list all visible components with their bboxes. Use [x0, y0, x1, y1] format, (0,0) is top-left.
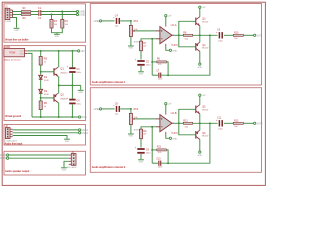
- wire Q3 emitter to output: [199, 26, 201, 36]
- junction: [71, 84, 73, 86]
- wire pot to ground: [130, 37, 132, 46]
- svg-text:BC547: BC547: [202, 109, 209, 111]
- svg-text:POW: POW: [10, 52, 16, 55]
- svg-text:Adjust 5v DC-DC: Adjust 5v DC-DC: [4, 59, 21, 62]
- op-amp U1.B V+ stub: [165, 112, 167, 114]
- wire Q4 collector down: [199, 139, 201, 151]
- pin +9V rail: [78, 50, 80, 52]
- svg-text:TL072: TL072: [171, 133, 178, 135]
- wire cap to R10: [224, 122, 233, 124]
- junction: [199, 34, 201, 36]
- transistor Q2: [54, 93, 58, 102]
- op-amp U1.A: [156, 27, 175, 44]
- pin OUT1: [254, 34, 256, 36]
- pin LINE1 out: [79, 129, 81, 131]
- pin GND rail: [79, 116, 81, 118]
- svg-text:C10: C10: [156, 157, 161, 160]
- svg-text:GND: GND: [198, 155, 203, 157]
- resistor R9: [140, 129, 143, 139]
- junction: [58, 50, 60, 52]
- wiper of RV1: [133, 30, 136, 32]
- svg-text:Audio amplification channel 1: Audio amplification channel 1: [92, 81, 126, 84]
- wire Q3 emitter to output: [199, 114, 201, 124]
- capacitor C4: [67, 97, 76, 104]
- wire pot to ground: [130, 125, 132, 134]
- junction: [151, 126, 153, 128]
- connector J3 speaker: [69, 154, 76, 166]
- wire opamp out: [174, 122, 183, 124]
- wire inverting node down: [151, 39, 153, 75]
- resistor R3: [50, 20, 53, 29]
- wire R3 R4 to ground: [52, 28, 63, 33]
- wire to output cap: [193, 34, 218, 36]
- connector J2 line input jack: [5, 128, 12, 139]
- svg-text:LINE1: LINE1: [81, 130, 88, 132]
- wire Q1 collector to +9V rail: [58, 51, 60, 68]
- wire inverting node down: [151, 127, 153, 163]
- resistor R1: [21, 11, 30, 13]
- wire Q2 emitter to mid node: [58, 85, 60, 93]
- pin +9V output stage: [199, 94, 201, 96]
- wire to Q4 base: [179, 123, 196, 135]
- svg-text:LINE1: LINE1: [79, 12, 86, 14]
- wire cap to volume pot: [120, 108, 131, 110]
- wire input to cap: [102, 108, 115, 110]
- svg-text:100u: 100u: [146, 64, 150, 66]
- junction: [58, 116, 60, 118]
- resistor R10: [233, 34, 243, 36]
- op-amp U1.A V- stub: [165, 44, 167, 46]
- pin GND opamp: [169, 137, 171, 139]
- wire mid node to C4: [71, 85, 73, 98]
- wire into pot: [130, 109, 132, 114]
- box: audio amplification channel 2: [90, 88, 261, 173]
- wire J2 to LINE2: [13, 132, 79, 134]
- svg-text:GND: GND: [172, 50, 177, 52]
- svg-text:BC557: BC557: [202, 136, 209, 138]
- junction: [151, 149, 153, 151]
- pin LINE2: [76, 13, 78, 15]
- svg-text:LINE2: LINE2: [79, 15, 86, 17]
- transistor Q4: [196, 42, 200, 51]
- junction: [40, 71, 42, 73]
- wire Q4 emitter to output: [199, 35, 201, 42]
- wire J2 to LINE1: [13, 129, 79, 131]
- junction: [209, 122, 211, 124]
- svg-text:Audio speaker output: Audio speaker output: [5, 170, 29, 173]
- wire +9V rail: [27, 50, 77, 52]
- wire - input to R7: [141, 39, 156, 41]
- wire J1 sleeve to ground: [12, 18, 16, 28]
- svg-text:10u: 10u: [115, 113, 118, 115]
- svg-text:3,5MM: 3,5MM: [5, 21, 11, 23]
- wire to output cap: [193, 122, 218, 124]
- transistor Q6: [196, 130, 200, 139]
- svg-text:RV1: RV1: [134, 20, 139, 23]
- capacitor C9: [135, 146, 145, 153]
- wire to Q2 base: [41, 97, 54, 99]
- resistor R5: [39, 57, 42, 66]
- svg-text:R11: R11: [157, 145, 162, 148]
- capacitor C1: [38, 10, 41, 13]
- svg-text:GND: GND: [129, 48, 134, 50]
- pin +9V output stage: [199, 6, 201, 8]
- power module U2: [4, 48, 27, 56]
- resistor R13: [233, 122, 243, 124]
- ground at J2: [64, 139, 70, 143]
- resistor R6: [39, 101, 42, 110]
- junction: [130, 20, 132, 22]
- potentiometer RV1: [129, 25, 132, 36]
- pin LINE1: [100, 20, 102, 22]
- wire Q4 collector down: [199, 51, 201, 63]
- pin GND output stage: [199, 63, 201, 65]
- svg-text:R10: R10: [234, 32, 239, 35]
- wire V- to pin: [166, 134, 170, 138]
- wire V- to pin: [166, 46, 170, 50]
- svg-text:+9V: +9V: [202, 95, 206, 97]
- svg-text:RV2: RV2: [134, 108, 139, 111]
- wire C5 to ground: [140, 154, 142, 159]
- capacitor C2: [38, 13, 41, 16]
- capacitor C11: [216, 119, 223, 126]
- svg-text:U1.B: U1.B: [171, 111, 177, 115]
- wire R7 to C5: [140, 139, 142, 148]
- wire R1 to C1: [31, 11, 38, 13]
- wire C3 to mid node: [71, 73, 73, 85]
- resistor R8: [183, 34, 192, 36]
- transistor Q3: [196, 17, 200, 26]
- svg-text:R13: R13: [234, 120, 239, 123]
- resistor R4: [61, 20, 64, 29]
- wire C5 to ground: [140, 66, 142, 71]
- svg-text:Virtual ground: Virtual ground: [5, 115, 22, 118]
- wire R5 to D1: [40, 65, 42, 75]
- wiper of RV2: [133, 118, 136, 120]
- svg-text:Virtual line out buffer: Virtual line out buffer: [5, 38, 29, 41]
- resistor R2: [21, 14, 30, 16]
- svg-text:100u: 100u: [218, 128, 222, 130]
- svg-text:+9V: +9V: [202, 7, 206, 9]
- resistor R11: [157, 149, 166, 151]
- wire R7 to C5: [140, 51, 142, 60]
- svg-text:GND: GND: [81, 117, 86, 119]
- capacitor C4: [113, 17, 120, 24]
- diode D2: [39, 89, 43, 93]
- wire D1 to D2: [40, 80, 42, 90]
- capacitor C7: [158, 73, 161, 78]
- pin OUT1 in: [7, 154, 9, 156]
- junction: [178, 34, 180, 36]
- junction: [167, 74, 169, 76]
- pin OUT2: [254, 122, 256, 124]
- potentiometer RV2: [129, 113, 132, 124]
- ground under C5: [138, 72, 144, 76]
- ground under pot: [128, 46, 134, 50]
- wire into pot: [130, 21, 132, 26]
- capacitor C8: [113, 105, 120, 112]
- capacitor C3: [67, 66, 76, 73]
- wire R6 down to bottom: [166, 150, 168, 163]
- svg-text:+9V: +9V: [81, 51, 86, 53]
- svg-text:100u: 100u: [146, 152, 150, 154]
- outer schematic frame: [2, 2, 265, 185]
- svg-text:OUT1: OUT1: [256, 35, 263, 37]
- wire R2 to C2: [31, 14, 38, 16]
- wire wiper to opamp + input: [135, 118, 156, 120]
- svg-text:100n: 100n: [158, 79, 162, 81]
- svg-text:GND: GND: [172, 138, 177, 140]
- svg-text:10u: 10u: [115, 25, 118, 27]
- junction: [71, 50, 73, 52]
- wire cap to R10: [224, 34, 233, 36]
- svg-text:GND: GND: [139, 73, 144, 75]
- svg-text:100u: 100u: [76, 72, 80, 74]
- pin LINE2 out: [79, 132, 81, 134]
- wire feedback to output node: [162, 35, 210, 75]
- wire OUT2 to J3: [9, 157, 69, 159]
- svg-text:100n: 100n: [158, 167, 162, 169]
- junction: [40, 97, 42, 99]
- wire J2 ground: [13, 136, 67, 139]
- box: audio speaker output: [4, 151, 86, 175]
- svg-text:100u: 100u: [218, 40, 222, 42]
- wire V+ to pin: [165, 17, 167, 25]
- wire GND rail: [32, 116, 78, 118]
- pin LINE1: [76, 10, 78, 12]
- wire Q1 emitter to mid node: [58, 76, 60, 85]
- junction: [178, 122, 180, 124]
- wire Q2 collector to GND rail: [58, 102, 60, 117]
- ground at J3: [61, 168, 67, 172]
- pin +9V opamp: [165, 15, 167, 17]
- pin GND output stage: [199, 151, 201, 153]
- svg-text:GND: GND: [198, 67, 203, 69]
- junction: [61, 11, 63, 13]
- wire to Q1 base: [41, 71, 54, 73]
- ground under C5: [138, 160, 144, 164]
- wire J1 to R1: [12, 11, 21, 13]
- junction: [151, 61, 153, 63]
- wire cap to volume pot: [120, 20, 131, 22]
- svg-text:GND: GND: [62, 169, 67, 171]
- svg-text:Audio amplification channel 2: Audio amplification channel 2: [92, 166, 126, 169]
- svg-text:OUT1: OUT1: [0, 155, 7, 157]
- resistor R6: [157, 61, 166, 63]
- wire input to cap: [102, 20, 115, 22]
- wire opamp out: [174, 34, 183, 36]
- svg-text:GND: GND: [65, 141, 70, 143]
- wire feedback to output node: [162, 123, 210, 163]
- svg-text:U1.A: U1.A: [171, 23, 177, 27]
- svg-text:GND: GND: [55, 36, 60, 38]
- svg-text:C11: C11: [217, 117, 222, 120]
- pin +9V opamp: [165, 103, 167, 105]
- wire R6 to rail: [40, 110, 42, 118]
- svg-text:Audio line input: Audio line input: [5, 142, 23, 145]
- wire V+ to pin: [165, 105, 167, 113]
- box: audio line input: [4, 125, 86, 146]
- svg-text:R12: R12: [183, 120, 188, 123]
- wire Q4 emitter to output: [199, 123, 201, 130]
- diode D1: [39, 75, 43, 79]
- transistor Q1: [54, 67, 58, 76]
- svg-text:SPK-JACK: SPK-JACK: [67, 166, 77, 169]
- wire OUT1 to J3: [9, 154, 69, 156]
- wire to Q4 base: [179, 35, 196, 47]
- capacitor C10: [158, 161, 161, 166]
- pin LINE2: [100, 108, 102, 110]
- wire to Q3 base: [179, 21, 196, 35]
- svg-text:GND: GND: [78, 92, 83, 94]
- wire - input to R7: [141, 127, 156, 129]
- pin OUT2 in: [7, 157, 9, 159]
- svg-text:OUT2: OUT2: [256, 123, 263, 125]
- svg-text:GND: GND: [20, 54, 25, 56]
- wire to Q3 base: [179, 109, 196, 123]
- junction: [130, 108, 132, 110]
- svg-text:47k: 47k: [158, 152, 161, 154]
- wire mid node down to ground: [80, 85, 82, 89]
- capacitor C6: [216, 31, 223, 38]
- svg-text:BC557: BC557: [202, 48, 209, 50]
- junction: [151, 38, 153, 40]
- wire bottom to C7: [152, 74, 158, 76]
- box: virtual ground: [4, 46, 86, 121]
- resistor R12: [183, 122, 192, 124]
- svg-text:TL072: TL072: [171, 45, 178, 47]
- junction: [71, 116, 73, 118]
- connector J1 3.5mm jack: [5, 8, 12, 19]
- resistor R7: [140, 41, 143, 51]
- svg-text:47k: 47k: [158, 64, 161, 66]
- wire R10 to OUT pin: [243, 34, 253, 36]
- junction: [167, 162, 169, 164]
- wire Q3 collector to +9V: [199, 96, 201, 105]
- junction: [40, 50, 42, 52]
- svg-text:100u: 100u: [76, 103, 80, 105]
- ground under R3 R4: [54, 34, 60, 38]
- junction: [40, 116, 42, 118]
- svg-text:OUT2: OUT2: [0, 158, 7, 160]
- box: virtual line out buffer: [4, 4, 86, 42]
- wire bottom to C7: [152, 162, 158, 164]
- wire J3 ground: [64, 161, 69, 167]
- wire D2 to R6: [40, 94, 42, 101]
- wire rail to C3: [71, 51, 73, 67]
- junction: [209, 34, 211, 36]
- wire virtual ground mid node: [59, 84, 81, 86]
- svg-text:BC547: BC547: [202, 21, 209, 23]
- transistor Q5: [196, 105, 200, 114]
- wire to R6: [152, 149, 157, 151]
- wire J1 to R2: [12, 14, 21, 16]
- svg-text:+9V: +9V: [168, 104, 172, 106]
- pin GND opamp: [169, 49, 171, 51]
- svg-text:U2B1: U2B1: [4, 46, 11, 49]
- junction: [58, 84, 60, 86]
- junction: [199, 122, 201, 124]
- svg-text:LINE2: LINE2: [81, 133, 88, 135]
- wire wiper to opamp + input: [135, 30, 156, 32]
- wire R6 down to bottom: [166, 62, 168, 75]
- wire to R6: [152, 61, 157, 63]
- wire rail to R5: [40, 51, 42, 57]
- svg-text:GND: GND: [129, 136, 134, 138]
- svg-text:+9V: +9V: [168, 16, 172, 18]
- wire C1 to LINE1 pin: [42, 11, 77, 13]
- svg-text:GND: GND: [14, 30, 19, 32]
- wire U2 gnd down: [27, 53, 32, 117]
- wire stub to ground: [56, 33, 58, 34]
- wire R10 to OUT pin: [243, 122, 253, 124]
- ground under J1: [14, 28, 20, 32]
- wire down to R4: [61, 12, 63, 20]
- wire Q3 collector to +9V: [199, 8, 201, 17]
- op-amp U1.A V+ stub: [165, 24, 167, 26]
- wire down to R3: [51, 15, 53, 20]
- wire C2 to LINE2 pin: [42, 14, 77, 16]
- junction: [51, 14, 53, 16]
- box: audio amplification channel 1: [90, 4, 261, 86]
- J1 pin tie bar: [11, 10, 13, 18]
- ground at virtual ground node: [78, 90, 84, 94]
- wire C4 to GND rail: [71, 105, 73, 118]
- ground under pot: [128, 134, 134, 138]
- svg-text:GND: GND: [139, 161, 144, 163]
- op-amp U1.B: [156, 115, 175, 132]
- op-amp U1.B V- stub: [165, 132, 167, 134]
- capacitor C5: [135, 58, 145, 65]
- svg-text:2N2222: 2N2222: [60, 73, 68, 75]
